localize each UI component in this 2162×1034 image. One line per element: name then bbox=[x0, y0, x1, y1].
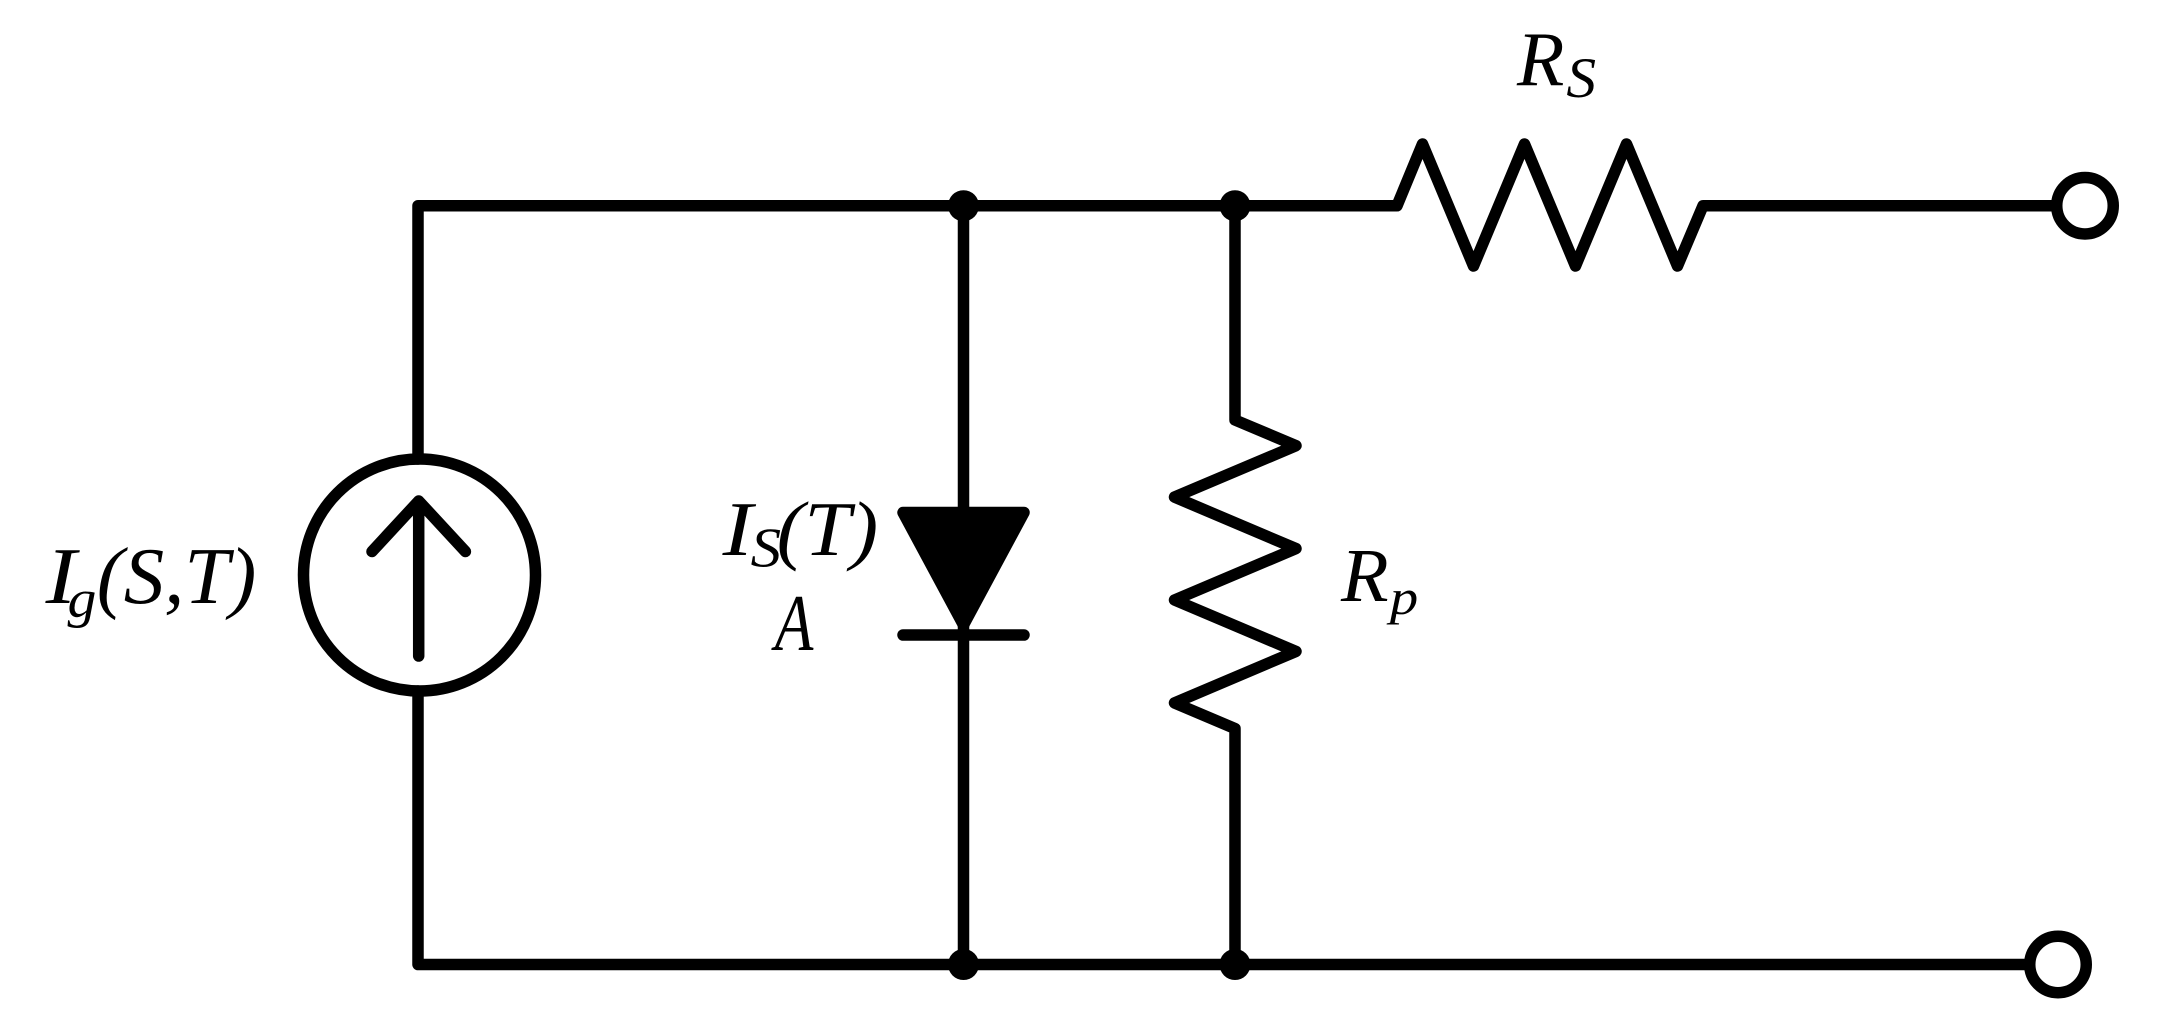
svg-text:g: g bbox=[68, 570, 97, 628]
svg-text:S: S bbox=[1566, 47, 1596, 110]
svg-text:(S,T): (S,T) bbox=[97, 532, 256, 621]
svg-text:(T): (T) bbox=[777, 486, 879, 572]
svg-text:R: R bbox=[1516, 16, 1564, 102]
svg-text:A: A bbox=[771, 580, 814, 668]
svg-text:p: p bbox=[1387, 569, 1419, 625]
svg-text:R: R bbox=[1340, 533, 1389, 618]
